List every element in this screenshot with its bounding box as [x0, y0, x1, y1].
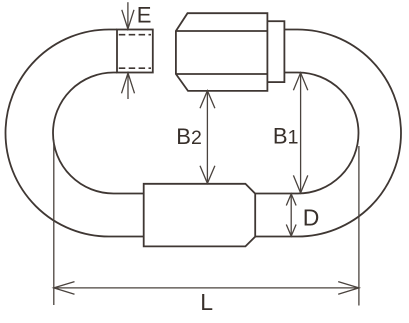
svg-text:B1: B1 [273, 124, 299, 149]
svg-text:L: L [200, 289, 213, 315]
svg-text:E: E [137, 2, 152, 27]
svg-text:B2: B2 [176, 124, 202, 149]
svg-text:D: D [303, 205, 320, 231]
